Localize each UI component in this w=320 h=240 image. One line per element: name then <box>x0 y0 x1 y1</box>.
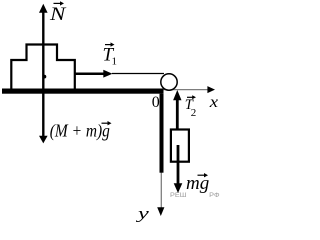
T1 label <box>103 42 118 67</box>
tension T1 arrow <box>76 70 113 78</box>
weight (M+m)g label <box>50 121 112 141</box>
y axis <box>157 92 164 216</box>
mg label <box>186 171 209 198</box>
hanging mass m <box>171 130 189 162</box>
x axis <box>164 86 216 93</box>
svg-text:2: 2 <box>191 107 197 119</box>
normal force N arrow <box>39 4 48 76</box>
T2 label <box>185 95 197 119</box>
N label <box>49 1 67 25</box>
svg-text:N: N <box>49 4 67 25</box>
center of mass dot <box>43 75 47 79</box>
stepped block M <box>11 45 75 89</box>
table top <box>2 89 164 94</box>
pulley <box>161 74 177 90</box>
svg-text:x: x <box>209 94 218 111</box>
svg-text:y: y <box>135 206 150 223</box>
svg-text:0: 0 <box>152 94 160 111</box>
weight (M+m)g arrow <box>39 76 48 143</box>
svg-text:1: 1 <box>112 56 118 68</box>
tension T2 arrow <box>173 90 181 130</box>
gravity mg arrow <box>174 145 183 193</box>
rope from block to pulley <box>112 73 164 75</box>
table right edge <box>160 94 164 173</box>
svg-text:(M + m)g: (M + m)g <box>50 121 110 141</box>
